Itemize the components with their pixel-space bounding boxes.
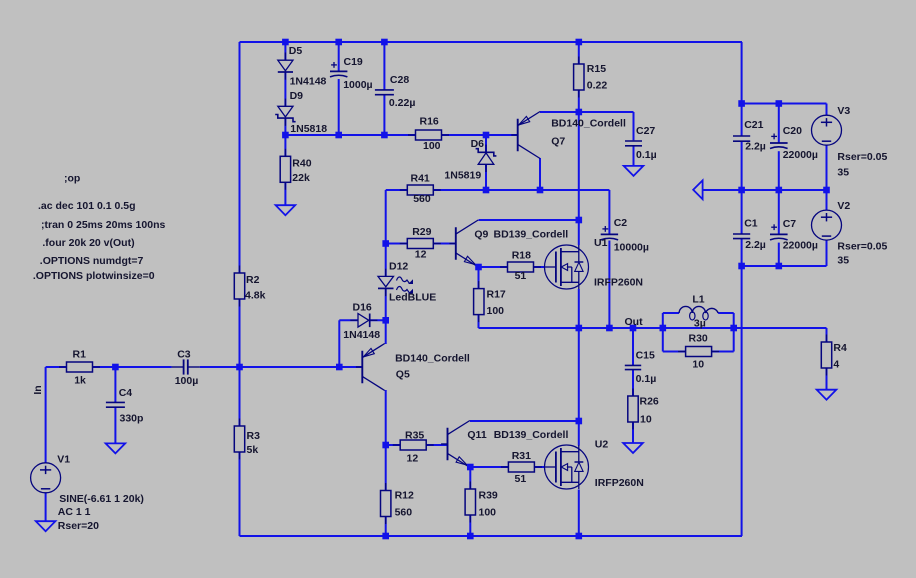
- svg-text:BD140_Cordell: BD140_Cordell: [551, 118, 626, 130]
- svg-text:R40: R40: [292, 158, 311, 170]
- wire Q11 emitter to R31: [470, 466, 508, 468]
- wire Out row: [579, 327, 827, 329]
- svg-text:;op: ;op: [64, 173, 80, 185]
- wire In to R1: [46, 366, 67, 368]
- svg-text:R30: R30: [689, 332, 708, 344]
- svg-text:Q11: Q11: [467, 429, 486, 441]
- resistor R40: [280, 149, 290, 190]
- svg-text:R17: R17: [487, 288, 506, 300]
- wire R18 to U1 gate: [534, 266, 546, 268]
- svg-text:R29: R29: [412, 226, 431, 238]
- wire C4 bottom lead: [114, 407, 116, 443]
- svg-text:0.1µ: 0.1µ: [636, 373, 657, 385]
- svg-text:0.1µ: 0.1µ: [636, 149, 657, 161]
- svg-text:BD140_Cordell: BD140_Cordell: [395, 353, 470, 365]
- junction D: [576, 39, 583, 46]
- svg-text:4.8k: 4.8k: [245, 290, 266, 302]
- ground R4: [817, 390, 837, 400]
- plus sign C19: [331, 62, 337, 68]
- junction G: [381, 132, 388, 139]
- wire C2 bottom lead: [608, 241, 610, 329]
- capacitor C20: [770, 143, 788, 149]
- svg-text:Q9: Q9: [474, 228, 488, 240]
- wire R39 bottom lead: [469, 515, 471, 536]
- svg-text:IRFP260N: IRFP260N: [595, 477, 644, 489]
- voltage source V2: [812, 210, 842, 240]
- svg-text:Out: Out: [625, 316, 644, 328]
- wire R17 to Out row: [479, 327, 579, 329]
- LED D12: [378, 269, 413, 296]
- svg-text:51: 51: [515, 473, 527, 485]
- junction P: [382, 240, 389, 247]
- wire R12 bottom lead: [385, 517, 387, 537]
- svg-text:.ac dec 101 0.1 0.5g: .ac dec 101 0.1 0.5g: [38, 200, 135, 212]
- capacitor C28: [375, 90, 394, 95]
- resistor R12: [381, 483, 391, 524]
- wire C20 bottom lead: [778, 151, 780, 190]
- svg-text:22000µ: 22000µ: [783, 240, 818, 252]
- wire R40 bottom lead: [284, 182, 286, 205]
- capacitor C3: [172, 359, 200, 374]
- wire D9 cathode lead: [284, 118, 286, 135]
- capacitor C1: [733, 234, 750, 239]
- svg-text:100: 100: [479, 506, 497, 518]
- junction H: [483, 132, 490, 139]
- transistor Q5 PNP: [356, 344, 385, 391]
- svg-text:C21: C21: [744, 119, 763, 131]
- wire C7 top lead: [778, 190, 780, 234]
- svg-text:C19: C19: [344, 56, 363, 68]
- wire D5 anode lead: [284, 42, 286, 60]
- svg-text:2.2µ: 2.2µ: [745, 141, 766, 153]
- svg-text:10: 10: [692, 359, 704, 371]
- wire C27 bottom lead: [633, 146, 635, 166]
- junction Z: [336, 364, 343, 371]
- svg-text:5k: 5k: [247, 444, 259, 456]
- ground R26: [623, 443, 643, 453]
- svg-text:BD139_Cordell: BD139_Cordell: [494, 429, 569, 441]
- wire C7 bottom lead: [778, 243, 780, 266]
- svg-text:C1: C1: [744, 218, 758, 230]
- wire R30 left lead: [663, 351, 686, 353]
- wire R39 top lead: [469, 467, 471, 489]
- wire C15 top lead: [632, 328, 634, 365]
- wire row190 to C2 corner: [540, 189, 609, 191]
- junction A: [282, 39, 289, 46]
- wire D12 bottom lead: [385, 288, 387, 320]
- wire L1 top right stub: [718, 312, 734, 314]
- svg-text:C28: C28: [390, 74, 409, 86]
- svg-text:C7: C7: [783, 218, 797, 230]
- svg-text:AC 1 1: AC 1 1: [58, 506, 91, 518]
- svg-text:R1: R1: [73, 348, 87, 360]
- wire right rail seg1: [741, 42, 743, 136]
- ground V1: [36, 521, 56, 531]
- svg-text:R16: R16: [420, 116, 439, 128]
- svg-text:.four 20k 20 v(Out): .four 20k 20 v(Out): [42, 237, 134, 249]
- svg-text:10000µ: 10000µ: [614, 241, 649, 253]
- wire C19 bottom lead: [338, 79, 340, 135]
- wire main vertical 112-220: [578, 112, 580, 220]
- svg-text:Rser=0.05: Rser=0.05: [837, 241, 887, 253]
- wire R16 to D6 node: [442, 134, 487, 136]
- ground C4: [106, 443, 126, 453]
- junction AD: [382, 533, 389, 540]
- wire left rail middle: [239, 299, 241, 426]
- svg-text:100µ: 100µ: [175, 375, 199, 387]
- resistor R39: [465, 482, 475, 523]
- wire left rail upper: [239, 42, 241, 273]
- svg-text:R39: R39: [479, 490, 498, 502]
- wire U1 drain lead: [578, 220, 580, 245]
- ground R40: [276, 205, 296, 215]
- svg-text:C3: C3: [177, 348, 191, 360]
- wire L1 right riser: [733, 313, 735, 352]
- capacitor C4: [106, 402, 125, 407]
- arrow mid-right rail: [693, 180, 702, 199]
- wire R15 bottom lead: [578, 90, 580, 112]
- junction AC: [576, 418, 583, 425]
- wire D6 bottom lead: [485, 164, 487, 190]
- diode D16: [350, 314, 377, 328]
- wire V3 top lead: [826, 104, 828, 116]
- wire V3 bottom lead: [826, 145, 828, 190]
- wire C15 bottom lead: [632, 370, 634, 396]
- svg-text:V2: V2: [837, 200, 850, 212]
- svg-text:D6: D6: [471, 138, 485, 150]
- svg-text:1N5818: 1N5818: [290, 123, 327, 135]
- svg-text:R2: R2: [246, 274, 260, 286]
- resistor R3: [234, 419, 244, 460]
- wire D5-D9 link: [284, 71, 286, 106]
- wire left rail lower: [239, 452, 241, 536]
- resistor R18: [500, 262, 541, 272]
- wire R41 to D6 anode: [433, 189, 540, 191]
- svg-text:3µ: 3µ: [694, 318, 706, 330]
- transistor Q7 PNP: [511, 112, 540, 159]
- wire bottom right row: [742, 265, 827, 267]
- wire C3 to R2 node: [200, 366, 240, 368]
- resistor R26: [628, 389, 638, 430]
- junction AF: [576, 533, 583, 540]
- transistor Q11 NPN: [441, 421, 470, 468]
- wire top right row: [742, 103, 827, 105]
- wire U2 source lead: [578, 490, 580, 537]
- wire R4 top lead: [826, 328, 828, 342]
- junction Q: [475, 264, 482, 271]
- resistor R35: [393, 440, 434, 450]
- wire D12 top lead: [385, 244, 387, 277]
- capacitor C2: [601, 234, 618, 240]
- wire R12 top lead: [385, 445, 387, 491]
- wire R1 to C4 node: [93, 366, 172, 368]
- svg-text:Q7: Q7: [551, 136, 565, 148]
- wire V2 bottom lead: [826, 240, 828, 266]
- svg-text:C4: C4: [119, 387, 133, 399]
- svg-text:LedBLUE: LedBLUE: [389, 291, 436, 303]
- svg-text:.OPTIONS numdgt=7: .OPTIONS numdgt=7: [40, 255, 144, 267]
- resistor R31: [501, 462, 542, 472]
- junction N: [823, 187, 830, 194]
- svg-text:Rser=20: Rser=20: [58, 520, 99, 532]
- svg-text:R15: R15: [587, 63, 606, 75]
- wire mid row arrow to V column: [703, 189, 827, 191]
- svg-text:22k: 22k: [292, 172, 310, 184]
- junction Y: [236, 364, 243, 371]
- resistor R41: [400, 185, 441, 195]
- svg-text:C27: C27: [636, 125, 655, 137]
- svg-text:1k: 1k: [74, 374, 86, 386]
- svg-text:U1: U1: [594, 237, 608, 249]
- junction L: [738, 187, 745, 194]
- wire D6 node to Q7 base: [486, 134, 518, 136]
- svg-text:Rser=0.05: Rser=0.05: [837, 151, 887, 163]
- svg-text:IRFP260N: IRFP260N: [594, 277, 643, 289]
- svg-text:0.22µ: 0.22µ: [389, 97, 416, 109]
- wire D12 node to Q5 emitter: [385, 320, 387, 344]
- capacitor C21: [733, 136, 750, 141]
- MOSFET U2 IRFP260N: [545, 445, 589, 489]
- wire Q9 emitter to R18: [479, 266, 508, 268]
- svg-text:R26: R26: [640, 396, 659, 408]
- svg-text:R3: R3: [247, 430, 261, 442]
- wire top rail: [240, 41, 743, 43]
- wire input row to Q5 base: [240, 366, 363, 368]
- wire In source riser: [45, 367, 47, 463]
- junction F: [335, 132, 342, 139]
- junction J: [483, 187, 490, 194]
- junction U: [630, 325, 637, 332]
- wire R29 left lead: [386, 243, 408, 245]
- svg-text:1N4148: 1N4148: [343, 329, 380, 341]
- wire C20 top lead: [778, 104, 780, 144]
- resistor R16: [408, 130, 449, 140]
- wire Q5 collector drop: [385, 390, 387, 445]
- wire C2 top lead: [608, 190, 610, 234]
- transistor Q9 NPN: [449, 220, 478, 267]
- svg-text:330p: 330p: [120, 412, 144, 424]
- svg-text:1N5819: 1N5819: [444, 170, 481, 182]
- junction AA: [382, 442, 389, 449]
- junction S: [576, 325, 583, 332]
- junction I: [576, 109, 583, 116]
- resistor R1: [59, 362, 100, 372]
- wire V2 top lead: [826, 190, 828, 210]
- svg-text:560: 560: [395, 506, 413, 518]
- wire R15 top lead: [578, 42, 580, 64]
- svg-text:V1: V1: [57, 454, 70, 466]
- junction V: [660, 325, 667, 332]
- junction B: [335, 39, 342, 46]
- wire Q9 collector row: [479, 219, 579, 221]
- junction X: [112, 364, 119, 371]
- wire D16 cathode lead: [370, 319, 386, 321]
- capacitor C15: [625, 365, 641, 369]
- wire C28 top lead: [383, 42, 385, 90]
- junction R: [382, 317, 389, 324]
- wire R4 bottom lead: [826, 368, 828, 390]
- svg-text:R18: R18: [512, 250, 531, 262]
- wire Q11 collector row: [470, 420, 579, 422]
- wire row190 left: [386, 189, 408, 191]
- resistor R2: [234, 266, 244, 307]
- wire bottom rail: [240, 535, 743, 537]
- svg-text:1000µ: 1000µ: [343, 79, 372, 91]
- wire R17 top lead: [478, 267, 480, 289]
- diode D5: [278, 53, 293, 80]
- wire row135 left: [285, 134, 415, 136]
- svg-text:C15: C15: [636, 350, 655, 362]
- ground C27: [624, 166, 644, 176]
- wire C28 bottom lead: [383, 95, 385, 135]
- capacitor C19: [330, 71, 347, 77]
- resistor R4: [821, 335, 831, 376]
- diode D9 schottky: [275, 99, 295, 126]
- wire R17 bottom lead: [478, 315, 480, 328]
- wire R29 to Q9 base: [433, 243, 456, 245]
- junction AI: [738, 263, 745, 270]
- plus sign C2: [602, 226, 608, 232]
- svg-text:51: 51: [515, 270, 527, 282]
- svg-text:C20: C20: [783, 125, 802, 137]
- resistor R29: [400, 239, 441, 249]
- svg-text:D12: D12: [389, 261, 408, 273]
- svg-text:35: 35: [837, 255, 849, 267]
- svg-text:12: 12: [407, 453, 419, 465]
- resistor R17: [474, 281, 484, 322]
- svg-text:R4: R4: [833, 342, 847, 354]
- svg-text:12: 12: [415, 248, 427, 260]
- svg-text:2.2µ: 2.2µ: [745, 239, 766, 251]
- svg-text:U2: U2: [595, 438, 609, 450]
- svg-text:10: 10: [640, 414, 652, 426]
- wire L1 top left stub: [663, 312, 679, 314]
- junction M: [776, 187, 783, 194]
- capacitor C27: [625, 141, 642, 146]
- svg-text:V3: V3: [837, 105, 850, 117]
- wire V1 bottom lead: [45, 492, 47, 521]
- svg-text:D9: D9: [290, 90, 304, 102]
- junction K: [537, 187, 544, 194]
- wire R35 to Q11 base: [426, 444, 447, 446]
- wire right rail seg2: [741, 141, 743, 234]
- svg-text:L1: L1: [692, 293, 704, 305]
- junction AH: [776, 100, 783, 107]
- svg-text:BD139_Cordell: BD139_Cordell: [494, 228, 569, 240]
- svg-text:0.22: 0.22: [587, 79, 608, 91]
- svg-text:R35: R35: [405, 430, 424, 442]
- svg-text:D16: D16: [353, 301, 372, 313]
- svg-text:Q5: Q5: [396, 369, 410, 381]
- wire Out node to U2 drain: [578, 328, 580, 421]
- junction T: [606, 325, 613, 332]
- wire R35 left lead: [386, 444, 401, 446]
- wire C19 top lead: [338, 42, 340, 71]
- svg-text:;tran 0 25ms 20ms 100ns: ;tran 0 25ms 20ms 100ns: [41, 219, 165, 231]
- junction AG: [738, 100, 745, 107]
- capacitor C7: [770, 234, 788, 240]
- svg-text:C2: C2: [614, 217, 628, 229]
- diode D6 schottky: [476, 145, 497, 172]
- wire R26 bottom lead: [632, 422, 634, 443]
- wire D16 anode lead: [339, 319, 358, 321]
- wire D16 anode drop: [338, 320, 340, 367]
- voltage source V1: [31, 463, 61, 493]
- wire C27 top lead: [633, 112, 635, 140]
- wire R40 top lead: [284, 135, 286, 156]
- resistor R15: [574, 57, 584, 98]
- wire left dropper 190-243: [385, 190, 387, 244]
- junction C: [381, 39, 388, 46]
- junction AB: [467, 464, 474, 471]
- svg-text:22000µ: 22000µ: [783, 149, 818, 161]
- wire R31 to U2 gate: [534, 466, 545, 468]
- wire L1 left riser: [662, 313, 664, 352]
- junction W: [730, 325, 737, 332]
- plus sign at (774.1,227.2): [771, 224, 777, 230]
- wire D6 top lead: [485, 135, 487, 152]
- junction E: [282, 132, 289, 139]
- svg-text:In: In: [32, 385, 44, 394]
- voltage source V3: [812, 115, 842, 145]
- wire right rail seg3: [741, 239, 743, 536]
- svg-text:100: 100: [487, 305, 505, 317]
- svg-text:100: 100: [423, 140, 441, 152]
- svg-text:.OPTIONS plotwinsize=0: .OPTIONS plotwinsize=0: [33, 270, 155, 282]
- wire Q7 emitter row: [540, 111, 634, 113]
- svg-text:D5: D5: [289, 45, 303, 57]
- wire U2 drain lead: [578, 421, 580, 446]
- junction AE: [467, 533, 474, 540]
- svg-text:1N4148: 1N4148: [290, 76, 327, 88]
- svg-text:R31: R31: [512, 450, 531, 462]
- wire C4 top lead: [114, 367, 116, 403]
- svg-text:35: 35: [837, 166, 849, 178]
- svg-text:R12: R12: [395, 489, 414, 501]
- wire U1 source lead: [578, 289, 580, 328]
- svg-text:R41: R41: [411, 172, 430, 184]
- inductor L1: [679, 306, 718, 320]
- resistor R30: [678, 347, 719, 357]
- junction O: [576, 217, 583, 224]
- svg-text:560: 560: [413, 193, 431, 205]
- plus sign at (774.1,136.4): [771, 134, 777, 140]
- wire Q7 collector drop: [539, 158, 541, 190]
- MOSFET U1 IRFP260N: [545, 245, 589, 289]
- svg-text:4: 4: [833, 359, 839, 371]
- svg-text:SINE(-6.61 1 20k): SINE(-6.61 1 20k): [59, 493, 144, 505]
- wire R30 right lead: [712, 351, 734, 353]
- junction AJ: [776, 263, 783, 270]
